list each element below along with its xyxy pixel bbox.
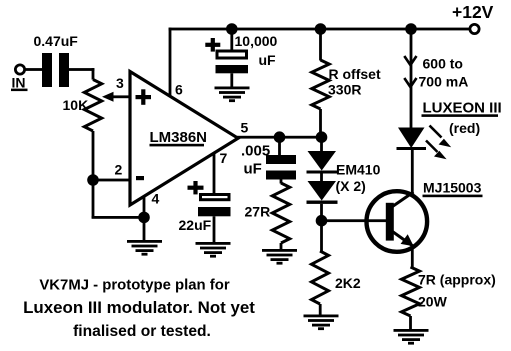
- resistor R4 7R zigzag: [402, 267, 420, 316]
- wire node A down: [92, 180, 95, 218]
- svg-text:LUXEON III: LUXEON III: [423, 100, 502, 117]
- svg-text:2K2: 2K2: [335, 275, 361, 291]
- wire D2 to node E: [320, 204, 323, 221]
- svg-text:22uF: 22uF: [179, 217, 212, 233]
- node C junction dot (.005uF tap): [274, 131, 286, 143]
- capacitor C2 10000uF polarity plus: [205, 43, 220, 47]
- svg-text:3: 3: [116, 75, 124, 91]
- svg-text:uF: uF: [244, 161, 262, 178]
- LED emission arrow 1: [430, 126, 442, 138]
- wire 2K2 to ground: [319, 304, 322, 315]
- wire rail to C2: [230, 29, 233, 50]
- wire top +12V rail: [169, 28, 470, 31]
- wire node B to ground: [143, 217, 146, 240]
- ground under 2K2: [304, 315, 339, 318]
- op-amp U1 minus input symbol: [136, 176, 144, 180]
- resistor R1 offset zigzag: [312, 60, 329, 109]
- svg-text:uF: uF: [259, 52, 277, 68]
- resistor R2 27R zigzag: [272, 183, 289, 243]
- node D junction dot (R offset / diode column): [316, 131, 328, 143]
- node B junction dot (pin4/ground): [138, 212, 150, 224]
- wire node E down to 2K2: [320, 221, 323, 251]
- svg-text:600 to: 600 to: [423, 56, 463, 72]
- capacitor C3 .005uF plates: [266, 155, 296, 164]
- LED emission arrow 2: [426, 141, 438, 153]
- wire pot bottom to node A: [92, 131, 95, 181]
- svg-text:10,000: 10,000: [235, 33, 278, 49]
- wire IN to C1: [25, 68, 42, 71]
- ground under pin 4: [127, 240, 162, 243]
- transistor Q1 emitter lead: [391, 231, 414, 247]
- svg-text:MJ15003: MJ15003: [423, 180, 482, 196]
- op-amp U1 LM386N triangle: [130, 72, 238, 206]
- diode D2 EM410: [308, 181, 337, 201]
- node rail junction dot over R offset: [315, 23, 327, 35]
- ground under C2: [215, 87, 250, 90]
- svg-text:EM410: EM410: [336, 162, 381, 178]
- current arrow chevron 1: [404, 56, 416, 65]
- transistor Q1 MJ15003 circle: [367, 191, 428, 252]
- diode D1 EM410: [308, 151, 337, 171]
- capacitor C4 negative plate (filled): [198, 207, 231, 216]
- svg-text:0.47uF: 0.47uF: [34, 33, 79, 49]
- wire D1 to D2: [320, 174, 323, 182]
- wire C2 to ground: [230, 73, 233, 87]
- resistor R3 2K2 zigzag: [312, 251, 329, 304]
- svg-text:10K: 10K: [63, 97, 89, 113]
- wire wiper to pin 3: [112, 95, 131, 98]
- svg-text:IN: IN: [12, 75, 26, 91]
- ground under C4: [196, 242, 231, 245]
- wire base from node E: [322, 219, 387, 222]
- op-amp U1 plus input symbol: [136, 95, 152, 99]
- transistor Q1 collector lead: [391, 192, 414, 208]
- node IN terminal circle: [15, 65, 24, 74]
- svg-text:700 mA: 700 mA: [419, 74, 469, 90]
- svg-text:finalised or tested.: finalised or tested.: [73, 323, 211, 340]
- wire node D to D1: [320, 137, 323, 152]
- wire bottom feedback run to pin 4: [92, 216, 146, 219]
- capacitor C4 22uF polarity plus: [188, 186, 204, 190]
- svg-text:7: 7: [220, 150, 228, 166]
- wire 27R to ground: [280, 243, 283, 250]
- wire LED to collector: [411, 150, 414, 193]
- svg-text:5: 5: [241, 120, 249, 136]
- svg-text:2: 2: [115, 162, 123, 178]
- node +12V terminal circle: [470, 24, 479, 33]
- svg-text:4: 4: [152, 191, 160, 207]
- svg-text:+12V: +12V: [452, 2, 494, 22]
- capacitor C1 0.47uF plates: [42, 53, 52, 87]
- node rail junction dot over LED: [405, 23, 417, 35]
- svg-text:7R (approx): 7R (approx): [418, 272, 496, 288]
- wire R offset to node D: [319, 109, 322, 137]
- wire emitter down to 7R: [411, 248, 414, 268]
- node E junction dot (base tap): [316, 215, 328, 227]
- svg-text:(red): (red): [449, 120, 480, 136]
- current arrow chevron 2: [404, 78, 416, 87]
- wire node C down to C3: [278, 137, 281, 155]
- wire pin6 to rail: [169, 28, 172, 97]
- transistor Q1 base bar: [386, 203, 394, 241]
- wiper arrow of VR1: [102, 92, 114, 102]
- wire C1 to pot top: [69, 68, 94, 71]
- ground under 7R: [394, 329, 429, 332]
- svg-text:R offset: R offset: [329, 66, 381, 82]
- svg-text:(X 2): (X 2): [336, 178, 366, 194]
- capacitor C2 negative plate (filled): [216, 65, 249, 73]
- capacitor C2 positive plate (hollow): [217, 51, 247, 58]
- svg-text:20W: 20W: [418, 294, 448, 310]
- wire pin 4 stub: [143, 196, 146, 218]
- node rail junction dot over C2: [226, 23, 238, 35]
- svg-text:.005: .005: [241, 143, 270, 160]
- wire pin 5 output: [237, 136, 323, 139]
- resistor VR1 10K potentiometer zigzag: [84, 80, 101, 132]
- capacitor C4 positive plate (hollow): [201, 195, 230, 200]
- wire 7R to ground: [409, 316, 412, 329]
- svg-text:LM386N: LM386N: [150, 129, 208, 146]
- LED D3 cathode bar: [397, 147, 427, 150]
- transistor Q1 emitter arrowhead: [401, 234, 414, 246]
- wire rail to R offset: [319, 29, 322, 61]
- wire C3 to R 27R: [280, 180, 283, 184]
- svg-text:Luxeon III modulator. Not yet: Luxeon III modulator. Not yet: [23, 298, 255, 317]
- svg-text:330R: 330R: [328, 82, 361, 98]
- ground under 27R: [262, 249, 297, 252]
- wire node A to pin 2: [93, 179, 130, 182]
- svg-text:6: 6: [175, 82, 183, 98]
- LED D3 triangle: [398, 128, 425, 149]
- svg-text:VK7MJ - prototype plan for: VK7MJ - prototype plan for: [39, 278, 229, 294]
- wire pin 7 down: [213, 153, 216, 194]
- wire C4 to ground: [213, 216, 216, 242]
- svg-text:27R: 27R: [245, 204, 271, 220]
- wire rail to LED: [410, 29, 413, 128]
- node A junction dot (pin2/feedback): [87, 174, 99, 186]
